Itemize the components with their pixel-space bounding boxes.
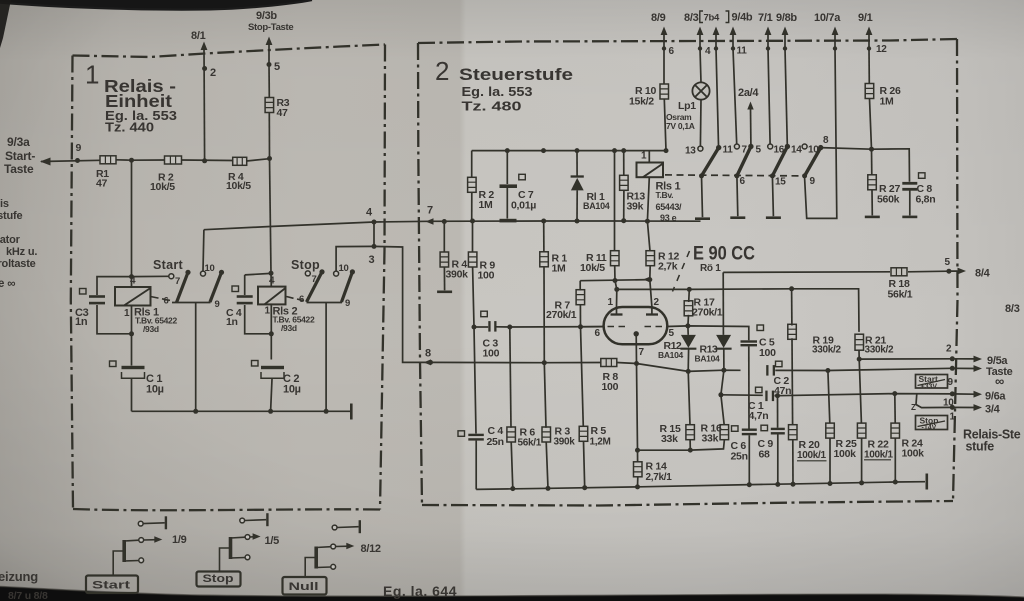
svg-text:Null: Null: [289, 581, 319, 593]
svg-text:93 e: 93 e: [660, 213, 677, 223]
svg-text:R 5: R 5: [591, 425, 607, 437]
svg-text:2a/4: 2a/4: [738, 87, 759, 99]
svg-text:BA104: BA104: [583, 201, 610, 211]
svg-text:2: 2: [435, 56, 449, 86]
svg-text:1/9: 1/9: [172, 534, 187, 546]
svg-text:6: 6: [164, 296, 169, 307]
svg-text:is: is: [0, 198, 9, 210]
svg-text:14: 14: [791, 145, 802, 156]
svg-text:9/1: 9/1: [858, 12, 873, 24]
svg-text:Start: Start: [919, 374, 939, 384]
svg-text:100: 100: [478, 269, 495, 281]
svg-text:e ∞: e ∞: [0, 278, 15, 290]
svg-text:2,7k: 2,7k: [658, 261, 678, 273]
svg-text:R 14: R 14: [646, 461, 667, 473]
svg-text:10µ: 10µ: [146, 384, 164, 396]
svg-text:0,01µ: 0,01µ: [511, 200, 536, 212]
svg-text:E 90 CC: E 90 CC: [693, 244, 755, 265]
svg-text:390k: 390k: [446, 268, 469, 280]
svg-text:330k/2: 330k/2: [812, 345, 842, 356]
svg-text:47: 47: [96, 178, 108, 190]
svg-text:6: 6: [595, 328, 601, 339]
svg-text:7/1: 7/1: [758, 12, 773, 24]
svg-text:330k/2: 330k/2: [865, 345, 895, 356]
svg-text:Eg. la. 644: Eg. la. 644: [383, 583, 457, 599]
svg-text:Taste: Taste: [4, 162, 34, 176]
svg-text:9/5a: 9/5a: [987, 355, 1008, 367]
svg-text:10: 10: [943, 398, 954, 409]
svg-text:7V 0,1A: 7V 0,1A: [666, 121, 695, 131]
svg-text:5: 5: [274, 61, 280, 73]
svg-text:7: 7: [175, 276, 180, 287]
svg-text:9: 9: [810, 176, 816, 187]
svg-text:9: 9: [345, 298, 350, 309]
svg-text:/93d: /93d: [143, 324, 159, 334]
svg-text:9: 9: [76, 142, 82, 154]
svg-text:Start: Start: [92, 580, 131, 592]
svg-text:100k/1: 100k/1: [864, 450, 894, 461]
svg-text:BA104: BA104: [658, 350, 684, 360]
svg-text:33k: 33k: [661, 433, 678, 445]
svg-text:8/9: 8/9: [651, 12, 666, 24]
svg-text:1/5: 1/5: [265, 535, 280, 547]
svg-text:Tz. 480: Tz. 480: [462, 100, 522, 114]
svg-text:4: 4: [705, 46, 711, 57]
svg-text:1M: 1M: [880, 96, 895, 108]
svg-text:stufe: stufe: [966, 440, 995, 454]
svg-text:10µ: 10µ: [283, 384, 301, 396]
svg-text:9/3a: 9/3a: [7, 135, 30, 149]
svg-text:2: 2: [946, 344, 952, 355]
svg-text:BA104: BA104: [695, 354, 721, 364]
svg-text:troltaste: troltaste: [0, 258, 36, 270]
svg-text:4,7n: 4,7n: [749, 410, 769, 422]
svg-text:9: 9: [215, 299, 220, 310]
svg-text:1: 1: [265, 306, 271, 317]
svg-text:7: 7: [639, 347, 645, 358]
svg-text:5: 5: [669, 328, 675, 339]
svg-text:390k: 390k: [554, 437, 576, 448]
svg-text:5: 5: [756, 145, 762, 156]
svg-text:Tz. 440: Tz. 440: [105, 121, 154, 135]
svg-text:1: 1: [608, 297, 614, 308]
svg-text:1n: 1n: [75, 316, 88, 328]
svg-text:39k: 39k: [627, 201, 644, 213]
svg-text:9/3b: 9/3b: [256, 10, 277, 22]
svg-text:56k/1: 56k/1: [518, 438, 542, 449]
svg-text:1: 1: [950, 412, 956, 423]
svg-text:Lp1: Lp1: [678, 100, 696, 112]
svg-text:7b4: 7b4: [704, 13, 720, 24]
svg-text:8/3: 8/3: [684, 12, 699, 24]
svg-text:100k: 100k: [834, 448, 857, 460]
svg-text:1: 1: [85, 60, 99, 90]
svg-text:56k/1: 56k/1: [888, 289, 913, 301]
svg-text:11: 11: [723, 145, 734, 156]
svg-text:270k/1: 270k/1: [692, 307, 723, 319]
svg-text:13: 13: [685, 146, 696, 157]
svg-text:1M: 1M: [479, 199, 494, 211]
svg-text:2: 2: [654, 297, 660, 308]
svg-text:33k: 33k: [702, 433, 719, 445]
svg-text:Einheit: Einheit: [105, 91, 172, 111]
svg-text:Stop: Stop: [291, 258, 320, 272]
svg-text:2,7k/1: 2,7k/1: [646, 472, 673, 483]
svg-text:100: 100: [759, 347, 776, 359]
svg-text:Stop-Taste: Stop-Taste: [248, 22, 293, 33]
svg-text:560k: 560k: [877, 194, 900, 206]
svg-text:9/4b: 9/4b: [732, 12, 753, 24]
svg-text:8/12: 8/12: [361, 543, 381, 555]
svg-text:25n: 25n: [487, 436, 504, 448]
svg-text:Start-: Start-: [5, 149, 35, 163]
svg-text:Start: Start: [153, 258, 184, 272]
svg-text:2: 2: [210, 67, 216, 79]
svg-text:100k: 100k: [902, 448, 925, 460]
svg-text:10k/5: 10k/5: [150, 181, 175, 193]
svg-text:1n: 1n: [226, 316, 238, 328]
svg-text:100: 100: [602, 381, 619, 393]
svg-text:1,2M: 1,2M: [590, 437, 611, 448]
svg-text:8/4: 8/4: [975, 268, 991, 280]
svg-text:Stop: Stop: [203, 573, 234, 585]
svg-text:15k/2: 15k/2: [629, 96, 654, 108]
svg-text:eizung: eizung: [0, 569, 38, 584]
svg-text:9: 9: [948, 377, 954, 388]
svg-text:6: 6: [740, 176, 746, 187]
svg-text:12: 12: [876, 44, 887, 55]
svg-text:kHz u.: kHz u.: [6, 246, 37, 258]
svg-text:7: 7: [427, 205, 433, 217]
svg-text:8: 8: [425, 348, 431, 360]
svg-text:8/3: 8/3: [1005, 303, 1020, 315]
svg-text:11: 11: [737, 46, 748, 57]
svg-text:rstufe: rstufe: [0, 210, 22, 222]
svg-text:10: 10: [339, 263, 349, 274]
svg-text:10/7a: 10/7a: [814, 12, 841, 24]
svg-text:6,8n: 6,8n: [916, 194, 936, 206]
svg-text:3/4: 3/4: [985, 404, 1001, 416]
svg-text:/93d: /93d: [281, 323, 297, 333]
svg-text:1M: 1M: [552, 263, 567, 275]
svg-text:65443/: 65443/: [656, 202, 683, 212]
svg-text:1: 1: [641, 151, 647, 162]
svg-text:9/8b: 9/8b: [776, 12, 797, 24]
svg-text:9/6a: 9/6a: [985, 391, 1006, 403]
svg-text:25n: 25n: [731, 451, 748, 463]
svg-text:270k/1: 270k/1: [546, 309, 577, 321]
svg-text:8/7 u 8/8: 8/7 u 8/8: [8, 590, 48, 601]
svg-text:100k/1: 100k/1: [797, 450, 827, 461]
svg-text:T.Bv.: T.Bv.: [656, 190, 674, 200]
svg-text:4: 4: [269, 276, 275, 287]
svg-text:3: 3: [369, 254, 375, 266]
svg-text:68: 68: [759, 449, 771, 461]
svg-text:5: 5: [945, 257, 951, 268]
svg-text:10k/5: 10k/5: [226, 180, 251, 192]
svg-text:Z: Z: [911, 403, 916, 412]
svg-text:10k/5: 10k/5: [580, 262, 605, 274]
svg-text:8/1: 8/1: [191, 30, 206, 42]
svg-text:llator: llator: [0, 234, 21, 246]
svg-text:8: 8: [823, 135, 829, 146]
svg-text:6: 6: [669, 46, 675, 57]
svg-text:1: 1: [124, 308, 130, 319]
svg-text:100: 100: [483, 348, 500, 360]
svg-text:47: 47: [277, 107, 289, 119]
svg-text:Eg. la. 553: Eg. la. 553: [462, 85, 533, 99]
svg-text:∞: ∞: [995, 374, 1004, 389]
svg-text:Rö 1: Rö 1: [700, 263, 721, 274]
svg-text:15: 15: [775, 177, 786, 188]
svg-text:Steuerstufe: Steuerstufe: [459, 66, 573, 84]
